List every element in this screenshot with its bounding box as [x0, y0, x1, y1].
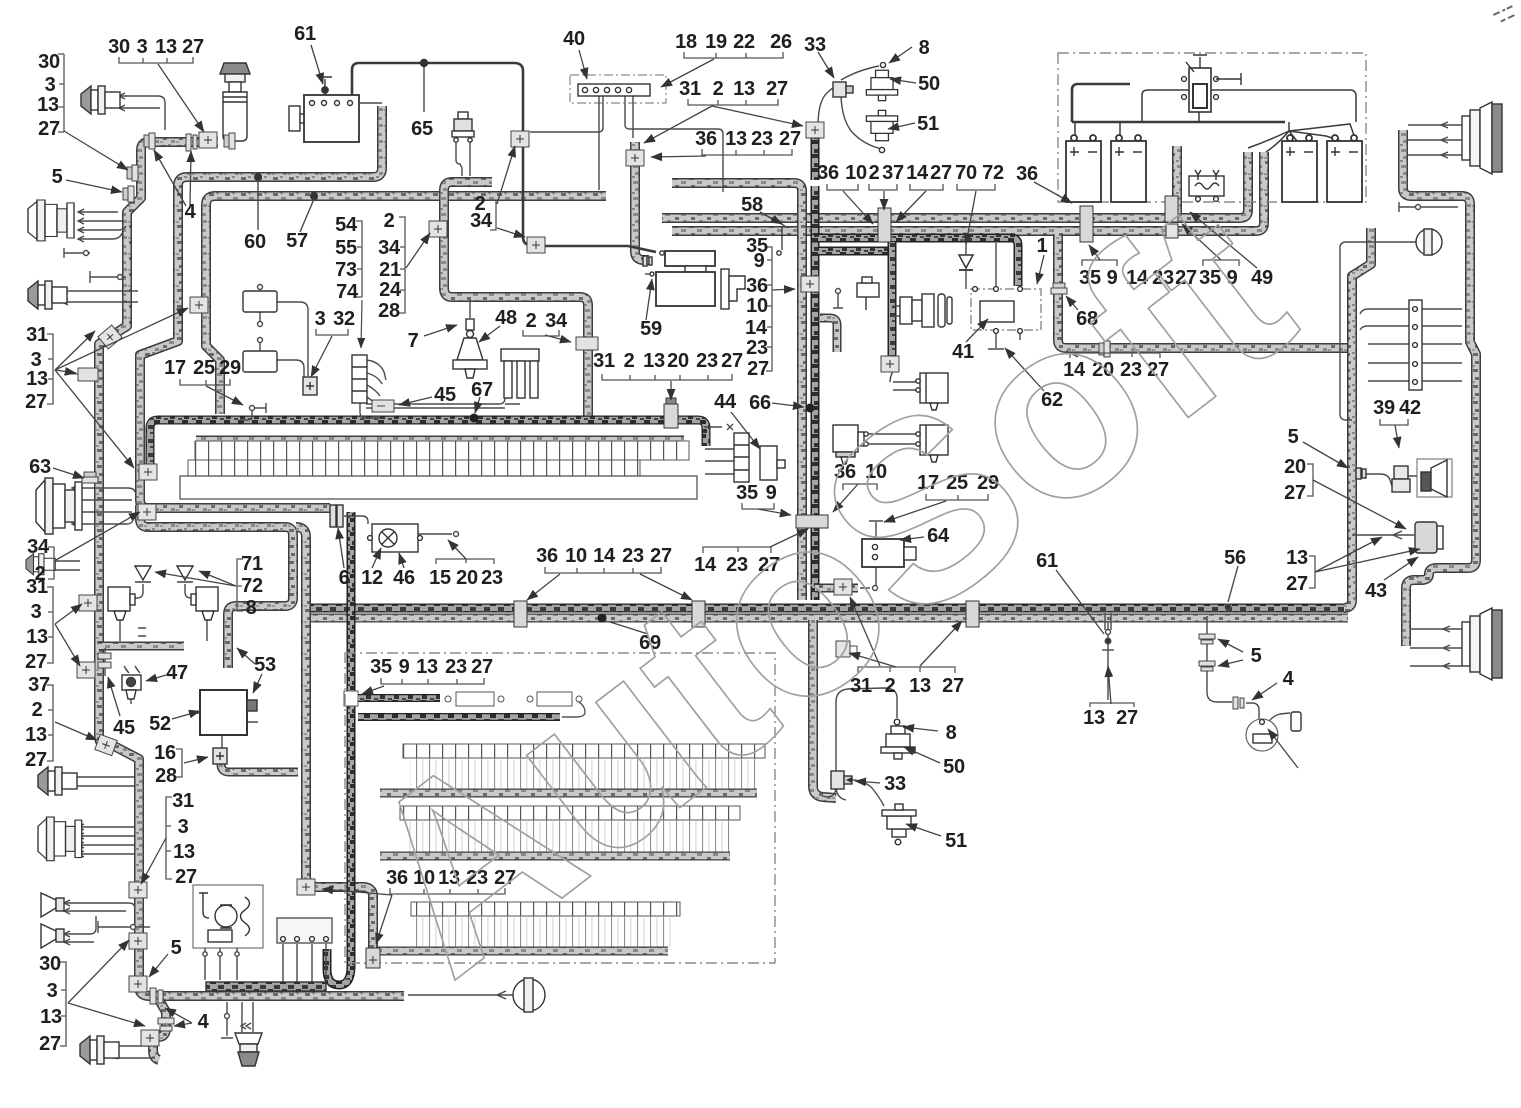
svg-text:26: 26: [770, 31, 792, 53]
wire fuse holder to bar2: [562, 702, 585, 717]
leader 2-37: [883, 191, 885, 210]
leader 30c-1: [68, 940, 129, 1003]
fuse holder 2: [527, 692, 582, 706]
connector x1171: [1165, 196, 1178, 238]
bracket 13-27b: [1309, 556, 1315, 588]
connector 31-col mid: [139, 464, 157, 480]
wire fog lamp feed: [1352, 534, 1414, 536]
connector bottle base: [224, 133, 235, 149]
wire 58 leader: [760, 212, 785, 226]
round lamp right: [1416, 229, 1442, 255]
leader 62: [1005, 348, 1044, 391]
harness right of main to 50 51: [813, 620, 836, 798]
leader 5c: [1303, 442, 1348, 468]
fuse row C bottom bar: [376, 947, 668, 956]
svg-text:4: 4: [1283, 668, 1295, 690]
svg-text:72: 72: [982, 162, 1004, 184]
dashed box terminal strip 40: [570, 75, 666, 103]
dashed box lower center: [345, 653, 775, 963]
glow unit in pocket: [857, 277, 879, 310]
wire comp64 top: [869, 521, 883, 539]
leader 17-25-29a: [206, 386, 243, 405]
wire to starter: [541, 246, 656, 252]
svg-text:13: 13: [733, 78, 755, 100]
svg-text:52: 52: [149, 713, 171, 735]
svg-text:28: 28: [155, 765, 177, 787]
leader 13-27b-1: [1315, 537, 1382, 572]
wire 4c to lamp: [1246, 703, 1259, 719]
svg-text:16: 16: [154, 742, 176, 764]
leader 43: [1384, 557, 1418, 580]
leader 15-20-23: [448, 540, 466, 559]
svg-text:27: 27: [39, 1033, 61, 1055]
leader 48: [479, 326, 500, 342]
leader 5d-1: [1218, 639, 1243, 652]
bracket 34-2b: [48, 547, 54, 579]
leader 36-10: [843, 191, 873, 224]
connector 31-2-13-27b left: [834, 579, 852, 595]
wire ignition to pocket: [893, 306, 900, 316]
harness center drop from fusebox: [140, 505, 293, 668]
leader 53-1: [253, 674, 262, 693]
svg-text:27: 27: [721, 350, 743, 372]
bracket 14-20-23-27b: [1070, 353, 1160, 358]
svg-text:20: 20: [667, 350, 689, 372]
connector 16 28: [213, 748, 227, 764]
harness 66 vertical double right: [811, 128, 820, 600]
svg-text:31: 31: [26, 324, 48, 346]
lamp test circuit 12 46 15: [330, 505, 422, 552]
svg-text:13: 13: [155, 36, 177, 58]
leader 31a-3: [55, 370, 134, 468]
svg-text:8: 8: [946, 722, 957, 744]
leader 31e-1: [644, 106, 712, 143]
leader 45b: [108, 677, 120, 716]
svg-text:47: 47: [166, 662, 188, 684]
wire battery drops left: [1075, 90, 1356, 141]
svg-text:18: 18: [675, 31, 697, 53]
leader 51b: [906, 824, 941, 836]
connector stack 44: [734, 433, 785, 482]
svg-text:46: 46: [393, 567, 415, 589]
svg-text:23: 23: [746, 337, 768, 359]
svg-text:36: 36: [536, 545, 558, 567]
leader 4b-2: [165, 1008, 192, 1023]
wire comp64 bottom: [860, 567, 876, 588]
bracket 30col-c: [60, 962, 66, 1046]
leader 50b: [904, 747, 940, 763]
svg-text:13: 13: [26, 368, 48, 390]
aux relay in battery box: [1189, 170, 1224, 201]
rings bottom ribbon: [150, 988, 163, 1004]
leader 31b-2: [55, 624, 80, 666]
svg-text:39: 39: [1373, 397, 1395, 419]
leader 47: [146, 675, 166, 681]
svg-text:58: 58: [741, 194, 763, 216]
leader 6: [338, 528, 344, 568]
svg-text:33: 33: [884, 773, 906, 795]
junction dot 65: [420, 59, 428, 67]
wire lamp circuit out: [418, 533, 452, 535]
svg-text:36: 36: [1016, 163, 1038, 185]
clamps 5d: [1199, 634, 1215, 671]
connector V4 24-28: [429, 221, 447, 237]
svg-text:5: 5: [1288, 426, 1299, 448]
svg-text:34: 34: [545, 310, 568, 332]
svg-text:48: 48: [495, 307, 517, 329]
svg-text:35: 35: [370, 656, 392, 678]
svg-text:20: 20: [456, 567, 478, 589]
leader 13-27c: [1108, 666, 1111, 704]
leader 31a-4: [55, 370, 76, 373]
svg-text:23: 23: [445, 656, 467, 678]
harness pocket top: [818, 247, 888, 256]
svg-text:67: 67: [471, 379, 493, 401]
bracket 37col: [47, 685, 53, 761]
harness relay drop left: [99, 642, 184, 651]
svg-text:27: 27: [1284, 482, 1306, 504]
leader 64: [900, 537, 924, 540]
connector H4 31-2-13-20: [664, 398, 678, 428]
svg-text:14: 14: [906, 162, 929, 184]
connector strip right: [1409, 300, 1422, 390]
svg-text:34: 34: [27, 536, 50, 558]
leader 5a: [66, 180, 122, 192]
bracket 70-72 pair: [957, 184, 995, 190]
terminal strip 40: [578, 84, 650, 96]
harness right vertical R3: [1344, 228, 1371, 608]
bracket 36-10 pair: [827, 184, 858, 190]
connector main h x520: [514, 601, 527, 627]
svg-text:13: 13: [25, 724, 47, 746]
leader 31b-1: [55, 604, 82, 624]
fuse row C tops: [411, 902, 680, 916]
leader 67: [475, 397, 480, 413]
connector 67 dot: [470, 414, 479, 423]
svg-text:33: 33: [804, 34, 826, 56]
connector 45a: [372, 400, 394, 412]
speaker group left 3: [28, 281, 67, 309]
leader 18-26: [661, 59, 714, 87]
leader 61b: [1056, 570, 1104, 634]
svg-text:36: 36: [817, 162, 839, 184]
wire horn39 stub: [1366, 474, 1417, 486]
connector 39 42: [1392, 466, 1410, 492]
harness left top horizontal: [148, 137, 218, 147]
svg-text:9: 9: [754, 250, 765, 272]
wire bottom stub T: [221, 1002, 233, 1038]
filter 51 top: [866, 110, 897, 140]
svg-text:27: 27: [38, 118, 60, 140]
cab lamp 1: [916, 373, 948, 410]
svg-text:59: 59: [640, 318, 662, 340]
wire lamp circuit entry: [344, 516, 368, 524]
wire relay2034: [456, 142, 470, 176]
svg-text:27: 27: [182, 36, 204, 58]
svg-text:34: 34: [470, 210, 493, 232]
svg-text:74: 74: [336, 281, 359, 303]
speaker group left 6: [38, 767, 77, 795]
svg-text:53: 53: [254, 654, 276, 676]
cab relay: [833, 425, 868, 464]
leader 31a-1: [55, 331, 95, 370]
bracket 15-20-23: [436, 559, 494, 564]
leader 63: [53, 468, 84, 478]
leader 14-20b: [1066, 351, 1078, 357]
ground stub horn area: [98, 921, 150, 933]
wire relay to lamp2: [862, 434, 918, 444]
clamp 68: [1051, 283, 1067, 294]
leader 36d-2: [376, 895, 392, 944]
bracket 31-2-13-27f: [858, 667, 955, 673]
harness dark drop x348: [327, 512, 351, 985]
connector 31d: [129, 882, 147, 898]
svg-text:13: 13: [37, 94, 59, 116]
leader 12: [372, 548, 381, 568]
harness branch to bottom-left speaker: [153, 998, 166, 1060]
fog lamp 43: [1415, 522, 1443, 553]
leader 71-72-2: [199, 571, 236, 586]
fuse row B bottom bar: [380, 852, 730, 861]
svg-text:55: 55: [335, 237, 357, 259]
horn 2: [41, 924, 64, 948]
svg-text:27: 27: [1116, 707, 1138, 729]
svg-text:3: 3: [47, 980, 58, 1002]
speaker bottom left 8: [80, 1036, 119, 1064]
leader 33a: [818, 52, 834, 78]
svg-text:2: 2: [526, 310, 537, 332]
leader 50a: [890, 79, 916, 83]
connector 199 305: [190, 297, 208, 313]
horn 1: [41, 893, 64, 917]
svg-text:37: 37: [882, 162, 904, 184]
wire lamp arrowhead: [497, 991, 506, 999]
wire turn lamp hook: [1267, 713, 1290, 724]
svg-text:23: 23: [696, 350, 718, 372]
rings 45b: [98, 653, 111, 668]
wire speaker1 b: [120, 107, 160, 109]
connector V635: [626, 150, 644, 166]
connector V815 top: [806, 122, 824, 138]
connector 30-3-13-27 top: [186, 134, 197, 151]
filter 50 top: [866, 70, 897, 100]
wire sender drops: [283, 944, 326, 982]
connector 5b: [129, 976, 147, 992]
leader 51a: [888, 123, 915, 129]
wire 62 ground stem: [988, 332, 1020, 349]
ground stub left 1: [64, 248, 90, 258]
svg-text:27: 27: [747, 358, 769, 380]
wire speaker5: [54, 561, 80, 570]
svg-text:17: 17: [164, 357, 186, 379]
leader 5d-2: [1218, 660, 1243, 666]
leader lamp diag: [1268, 729, 1298, 768]
funnel reservoir 7 area: [220, 63, 250, 141]
bracket 35-9-13-23-27: [381, 678, 484, 684]
connector dark wire 2-34c: [511, 131, 529, 147]
connector dark wire mid: [527, 237, 545, 253]
svg-text:24: 24: [379, 279, 402, 301]
leader 35-9bat1: [1089, 245, 1100, 260]
switch 64: [862, 539, 916, 567]
svg-text:40: 40: [563, 28, 585, 50]
rings on harness for horn: [1356, 468, 1366, 479]
horn relay 48: [453, 319, 487, 378]
bracket 30-row top: [119, 57, 193, 63]
wire lamp1 feeds: [890, 371, 918, 390]
leader 14-27: [896, 191, 926, 222]
svg-text:2: 2: [869, 162, 880, 184]
svg-text:3: 3: [137, 36, 148, 58]
svg-text:10: 10: [746, 295, 768, 317]
fuse row A bottom bar: [380, 789, 757, 798]
leader 36c-2: [640, 574, 692, 600]
svg-text:7: 7: [408, 330, 419, 352]
harness center vertical 306: [296, 527, 373, 952]
wire 72 drop: [995, 243, 997, 287]
fuse row B tops: [400, 806, 740, 820]
leader 36-10b: [833, 484, 858, 512]
svg-text:23: 23: [751, 128, 773, 150]
svg-text:2: 2: [713, 78, 724, 100]
harness from 52 to center vertical: [221, 764, 298, 772]
bracket 31-2-13-20-23-27: [602, 374, 732, 380]
resistor bar 1: [358, 694, 440, 702]
bracket 31col-a: [47, 334, 53, 404]
wire 60 leader: [257, 180, 259, 230]
connector main h x698: [692, 601, 705, 627]
connector pipes 67: [501, 349, 539, 398]
svg-text:28: 28: [378, 300, 400, 322]
leader 17-25-29b: [884, 501, 946, 522]
leader 31f-2: [920, 621, 962, 666]
leader 66: [772, 403, 804, 407]
svg-text:42: 42: [1399, 397, 1421, 419]
svg-text:21: 21: [379, 259, 401, 281]
battery 3: [1282, 135, 1317, 202]
bracket 16-28col: [176, 749, 182, 777]
wire relays-a right: [277, 302, 308, 378]
resistor feed connector: [344, 691, 358, 706]
unit 61: [289, 77, 359, 142]
clamp 63: [82, 472, 98, 483]
connector 33 top: [833, 82, 853, 97]
svg-text:51: 51: [917, 113, 939, 135]
connector 31b lower: [77, 662, 95, 678]
bracket 3-32: [316, 329, 348, 335]
harness 57: [206, 196, 606, 414]
leader 2-34c-dn: [497, 228, 525, 237]
wire right fan wires: [1368, 309, 1462, 381]
wire PTO drops: [205, 948, 237, 980]
leader 2-34c-up: [497, 146, 515, 204]
leader 68: [1066, 296, 1078, 310]
leader 74 stack: [361, 300, 362, 348]
fuse row A bodies: [410, 758, 758, 789]
speaker right bottom: [1462, 608, 1502, 680]
leader 4b-1: [174, 1023, 192, 1026]
svg-text:44: 44: [714, 391, 737, 413]
harness pocket stub: [820, 318, 837, 352]
svg-text:36: 36: [695, 128, 717, 150]
svg-text:60: 60: [244, 231, 266, 253]
svg-text:13: 13: [173, 841, 195, 863]
leader 31e-2: [712, 106, 803, 126]
wire battery main from unit 61: [352, 63, 531, 245]
leader 31f-3: [849, 653, 896, 667]
wire right top speaker feeds: [1408, 125, 1462, 155]
connector 31b upper: [79, 595, 97, 611]
wire speaker arrow marks: [1441, 122, 1450, 669]
relay a1: [243, 291, 277, 312]
bracket 17-25-29b: [926, 494, 988, 500]
central fusebox base: [180, 476, 697, 499]
wire right fan left ends: [1360, 309, 1368, 330]
central fusebox row1: [195, 441, 689, 460]
leader 44: [731, 412, 760, 449]
svg-text:50: 50: [943, 756, 965, 778]
harness main horizontal dark: [305, 604, 1348, 613]
leader 37col: [55, 722, 97, 740]
leader 14-23-27b: [770, 529, 808, 547]
svg-text:45: 45: [434, 384, 456, 406]
harness 60: [140, 106, 382, 508]
bracket 2-34-21col: [399, 217, 405, 313]
clamp 27 left: [127, 165, 138, 181]
terminal 8 top: [880, 62, 885, 67]
leader 31-20-23: [670, 381, 672, 400]
wire 47 stem: [125, 668, 140, 704]
leader 49: [1190, 212, 1257, 268]
svg-text:71: 71: [241, 553, 263, 575]
leader 5b: [149, 954, 168, 977]
connector 41 bottom: [881, 356, 899, 372]
leader 45a: [399, 397, 432, 405]
svg-text:19: 19: [705, 31, 727, 53]
rings H510 end: [347, 515, 349, 517]
leader 35-9-36col: [772, 289, 795, 290]
svg-text:66: 66: [749, 392, 771, 414]
wire bottom speaker8: [113, 1046, 155, 1058]
svg-text:3: 3: [31, 601, 42, 623]
wire right ground stub: [1399, 202, 1458, 212]
sensor 47: [122, 675, 141, 699]
svg-text:2: 2: [384, 210, 395, 232]
svg-text:29: 29: [219, 357, 241, 379]
leader 34-2b: [56, 512, 140, 560]
wire horn2: [63, 916, 96, 942]
svg-text:73: 73: [335, 259, 357, 281]
svg-text:10: 10: [845, 162, 867, 184]
svg-text:13: 13: [643, 350, 665, 372]
wire fusebox right feed: [705, 449, 735, 474]
wire bottom lamp: [408, 994, 514, 996]
bracket 2-34c: [490, 200, 496, 230]
speaker group left 7: [38, 817, 82, 861]
svg-text:2: 2: [624, 350, 635, 372]
leader 13-27b-2: [1315, 549, 1420, 572]
svg-text:27: 27: [25, 749, 47, 771]
wire bell 48 stem: [469, 300, 471, 318]
bracket 36-10b: [843, 484, 877, 490]
clamp H68: [1099, 341, 1110, 357]
leader 53-2: [237, 648, 255, 664]
wire 5d drop: [1207, 616, 1232, 702]
filter 50 bottom: [881, 726, 915, 759]
svg-text:22: 22: [733, 31, 755, 53]
svg-text:27: 27: [25, 651, 47, 673]
svg-text:56: 56: [1224, 547, 1246, 569]
